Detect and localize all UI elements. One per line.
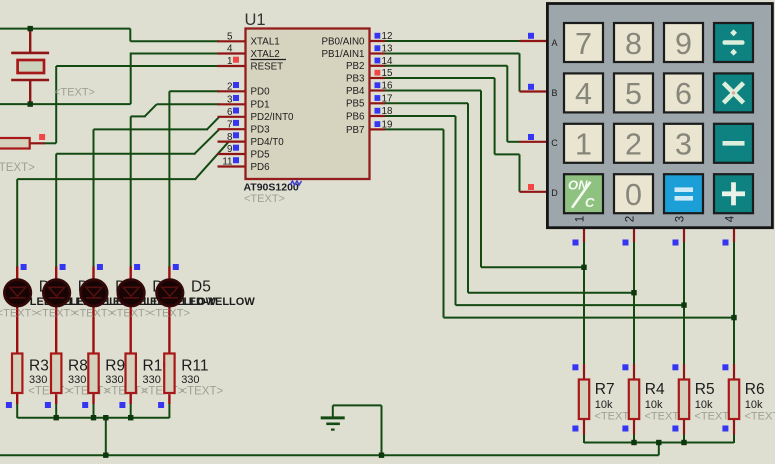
- svg-text:3: 3: [675, 128, 692, 162]
- svg-text:12: 12: [382, 31, 393, 42]
- svg-text:16: 16: [382, 81, 393, 92]
- svg-text:R4: R4: [645, 381, 665, 398]
- svg-text:A: A: [551, 38, 557, 48]
- svg-text:<TEXT>: <TEXT>: [110, 308, 151, 320]
- svg-text:R3: R3: [29, 358, 49, 375]
- svg-text:1: 1: [575, 128, 592, 162]
- svg-text:11: 11: [222, 157, 232, 168]
- svg-text:PB2: PB2: [346, 61, 365, 72]
- svg-text:R9: R9: [105, 358, 125, 375]
- svg-text:ON: ON: [568, 178, 588, 193]
- svg-text:PB4: PB4: [346, 86, 365, 97]
- svg-text:<TEXT>: <TEXT>: [36, 308, 77, 320]
- svg-text:<TEXT>: <TEXT>: [28, 386, 71, 398]
- svg-text:RESET: RESET: [251, 61, 284, 72]
- svg-text:10k: 10k: [695, 399, 713, 411]
- svg-text:<TEXT>: <TEXT>: [0, 162, 35, 174]
- svg-text:2: 2: [625, 128, 642, 162]
- svg-text:10k: 10k: [645, 399, 663, 411]
- svg-text:7: 7: [575, 27, 592, 61]
- svg-text:<TEXT>: <TEXT>: [54, 87, 95, 99]
- svg-text:C: C: [551, 138, 558, 148]
- svg-text:XTAL2: XTAL2: [251, 49, 280, 60]
- svg-text:U1: U1: [245, 11, 266, 29]
- svg-text:B: B: [551, 88, 557, 98]
- svg-text:19: 19: [382, 120, 393, 131]
- svg-text:7: 7: [227, 119, 232, 130]
- svg-text:3: 3: [227, 95, 233, 106]
- svg-text:330: 330: [181, 374, 199, 386]
- svg-text:PB1/AIN1: PB1/AIN1: [321, 49, 364, 60]
- svg-text:PD3: PD3: [251, 125, 271, 136]
- svg-text:<TEXT>: <TEXT>: [745, 411, 775, 423]
- svg-text:10k: 10k: [595, 399, 613, 411]
- svg-text:<TEXT>: <TEXT>: [73, 308, 114, 320]
- svg-text:5: 5: [227, 32, 233, 43]
- svg-text:R11: R11: [181, 358, 208, 375]
- svg-text:2: 2: [625, 216, 637, 222]
- svg-text:330: 330: [143, 374, 161, 386]
- svg-text:<TEXT>: <TEXT>: [244, 193, 285, 205]
- svg-text:6: 6: [227, 107, 233, 118]
- svg-text:R8: R8: [68, 358, 88, 375]
- svg-text:330: 330: [105, 374, 123, 386]
- svg-text:D: D: [551, 188, 558, 198]
- svg-text:PB5: PB5: [346, 99, 365, 110]
- svg-text:2: 2: [227, 82, 232, 93]
- svg-text:330: 330: [29, 374, 47, 386]
- svg-text:PD2/INT0: PD2/INT0: [251, 112, 295, 123]
- svg-text:17: 17: [382, 94, 393, 105]
- svg-text:9: 9: [675, 27, 692, 61]
- svg-text:8: 8: [625, 27, 642, 61]
- svg-text:14: 14: [382, 56, 393, 67]
- svg-text:PB6: PB6: [346, 111, 365, 122]
- svg-text:R7: R7: [595, 381, 615, 398]
- svg-text:6: 6: [675, 77, 692, 111]
- svg-text:13: 13: [382, 44, 393, 55]
- svg-text:5: 5: [625, 77, 642, 111]
- svg-text:PB0/AIN0: PB0/AIN0: [321, 36, 365, 47]
- svg-text:D5: D5: [191, 279, 211, 296]
- svg-text:R5: R5: [695, 381, 715, 398]
- svg-text:10k: 10k: [745, 399, 763, 411]
- svg-text:LED-YELLOW: LED-YELLOW: [182, 296, 255, 308]
- svg-text:PB7: PB7: [346, 125, 365, 136]
- svg-text:<TEXT>: <TEXT>: [0, 308, 38, 320]
- svg-text:15: 15: [382, 68, 393, 79]
- svg-text:PD6: PD6: [251, 162, 271, 173]
- svg-text:8: 8: [227, 132, 233, 143]
- svg-text:1: 1: [575, 216, 587, 222]
- svg-text:XTAL1: XTAL1: [251, 37, 280, 48]
- svg-text:PD0: PD0: [251, 87, 271, 98]
- svg-text:PD5: PD5: [251, 149, 271, 160]
- svg-text:3: 3: [675, 216, 687, 222]
- svg-text:4: 4: [575, 77, 592, 111]
- svg-text:9: 9: [227, 144, 232, 155]
- svg-text:R6: R6: [745, 381, 765, 398]
- svg-text:4: 4: [725, 215, 737, 222]
- svg-text:18: 18: [382, 106, 393, 117]
- svg-text:<TEXT>: <TEXT>: [180, 386, 223, 398]
- svg-text:C: C: [585, 195, 595, 210]
- svg-text:PB3: PB3: [346, 73, 365, 84]
- svg-text:330: 330: [68, 374, 86, 386]
- svg-text:<TEXT>: <TEXT>: [149, 308, 190, 320]
- svg-text:0: 0: [625, 178, 642, 212]
- svg-text:1: 1: [227, 56, 232, 67]
- svg-text:PD1: PD1: [251, 100, 270, 111]
- svg-text:4: 4: [227, 44, 233, 55]
- svg-text:PD4/T0: PD4/T0: [251, 137, 285, 148]
